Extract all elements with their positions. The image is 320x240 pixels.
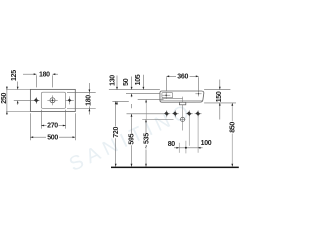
- drain bar below elevation: [179, 102, 185, 105]
- svg-text:100: 100: [201, 140, 212, 147]
- dim 150: [219, 80, 221, 120]
- dim 360: [166, 76, 198, 92]
- left fixing hole: [33, 97, 39, 103]
- floor line: [111, 167, 239, 169]
- svg-text:595: 595: [129, 133, 136, 144]
- svg-text:50: 50: [123, 78, 130, 86]
- svg-text:180: 180: [85, 95, 92, 106]
- elevation inner bottom line: [160, 99, 202, 101]
- svg-text:535: 535: [144, 133, 151, 144]
- dim 720: [115, 101, 117, 166]
- elevation drain centerline upper: [182, 97, 184, 131]
- connection crosses row: [163, 110, 201, 117]
- top-left reference line: [109, 89, 160, 91]
- dim 180 top: [23, 74, 58, 87]
- dim 850: [231, 104, 233, 167]
- dim 595: [127, 104, 164, 167]
- dim 180 right of plan: [67, 83, 96, 115]
- elevation tap deck inner: [162, 93, 173, 98]
- drain circle ext line / 535 tick: [142, 118, 173, 120]
- right overflow hole: [65, 96, 73, 104]
- dim 105: [138, 75, 164, 104]
- svg-text:125: 125: [11, 70, 18, 81]
- dim 270: [41, 110, 65, 129]
- svg-text:130: 130: [109, 75, 116, 86]
- svg-text:850: 850: [230, 122, 237, 133]
- grey extension verticals below: [179, 117, 198, 154]
- tap hole: [47, 95, 57, 105]
- right ref lines: [204, 90, 236, 103]
- plan view outer rim: [30, 89, 75, 111]
- dim 130: [112, 76, 128, 106]
- dim 535 approx: [145, 119, 147, 166]
- elevation tap crosshair: [162, 92, 170, 99]
- svg-text:180: 180: [39, 71, 50, 78]
- dim 50: [126, 77, 160, 98]
- svg-text:150: 150: [216, 91, 223, 102]
- svg-text:105: 105: [135, 74, 142, 85]
- dim 500: [30, 113, 75, 140]
- plan view inner basin: [41, 92, 65, 108]
- svg-text:80: 80: [168, 141, 176, 148]
- svg-text:500: 500: [47, 134, 58, 141]
- dim 250 left: [6, 86, 30, 115]
- elevation right cross: [195, 91, 201, 96]
- drain circle: [180, 117, 184, 121]
- dim 80 / 100 bottom: [174, 147, 203, 149]
- elevation step line: [162, 98, 183, 100]
- svg-text:250: 250: [1, 93, 8, 104]
- svg-text:~: ~: [143, 145, 150, 149]
- dim 125 left: [6, 82, 33, 105]
- svg-text:270: 270: [47, 123, 58, 130]
- svg-text:360: 360: [177, 74, 188, 81]
- svg-text:720: 720: [113, 127, 120, 138]
- watermark SANITINO: [66, 99, 197, 176]
- elevation outer body: [160, 91, 204, 102]
